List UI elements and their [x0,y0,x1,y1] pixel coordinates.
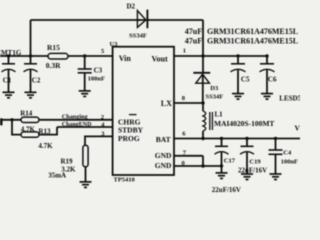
svg-text:0.3R: 0.3R [46,61,61,70]
capacitor C17 [215,139,229,173]
svg-text:1: 1 [183,47,186,54]
svg-text:U3: U3 [110,41,119,48]
svg-text:Vout: Vout [152,55,168,64]
svg-text:GND: GND [155,151,172,160]
svg-text:C5: C5 [241,75,250,83]
wire R14 to U3 pin2 [39,119,113,121]
node junction C5 [236,54,239,57]
wire LX to node [174,102,203,104]
svg-text:R19: R19 [61,157,74,165]
wire Vin rail right to U3 pin5 [68,55,113,57]
wire GND join vertical [202,156,204,166]
svg-text:C19: C19 [249,158,261,165]
node junction C4 [274,137,277,140]
wire junction down to R13 [12,120,21,135]
svg-text:4.7K: 4.7K [38,142,53,150]
resistor R15 [48,53,68,59]
svg-text:100nF: 100nF [281,158,298,165]
resistor R19 [83,145,88,167]
svg-text:R15: R15 [47,43,60,52]
capacitor C1 [2,56,16,92]
diode D3 [193,73,210,103]
svg-text:L1: L1 [215,111,224,119]
svg-text:Vin: Vin [119,54,132,63]
svg-text:SS34F: SS34F [206,94,224,101]
svg-text:SS34F: SS34F [129,32,147,39]
svg-text:Changing: Changing [62,114,89,121]
node junction GND join [201,164,204,167]
svg-text:CMT1G: CMT1G [0,49,22,57]
capacitor C19 [240,139,254,175]
node junction C1 [7,54,10,57]
wire R13 up-jog to pin4 rail [39,127,57,135]
wire BAT rail [174,138,300,140]
svg-text:GRM31CR61A476ME15L: GRM31CR61A476ME15L [207,37,298,46]
wire GND pin7 [174,155,203,157]
capacitor C4 [269,139,283,175]
svg-text:C6: C6 [268,75,277,83]
wire R19 to ground [85,167,87,182]
wire U3 pin3 to R19 [85,136,113,145]
node junction C19 [245,137,248,140]
node junction L1/BAT [201,137,204,140]
diode D2 [137,10,147,29]
node junction C17 bottom [220,164,223,167]
wire GND pin0 [174,165,203,167]
svg-text:35mA: 35mA [48,171,66,179]
svg-text:C4: C4 [283,150,292,157]
resistor R13 [21,132,39,137]
wire vertical drop at left x=30.5 [30,20,32,56]
svg-text:D2: D2 [127,3,136,11]
resistor R14 [21,117,39,122]
node junction C3 [83,54,86,57]
svg-text:100nF: 100nF [88,76,105,83]
capacitor C6 [260,56,275,94]
wire top rail from input to D2 [31,19,141,21]
ground (C3) [79,91,91,97]
wire Vin rail left [0,55,48,57]
capacitor C5 [231,56,246,94]
svg-text:GRM31CR61A476ME15L: GRM31CR61A476ME15L [207,27,298,36]
wire Vout rail [174,55,267,57]
net stub left edge (cut) [0,118,3,125]
ground (C6) [261,94,273,100]
svg-text:V: V [295,124,301,133]
svg-text:22uF/16V: 22uF/16V [212,186,241,194]
wire vertical right x=203 top [202,20,204,73]
svg-text:BAT: BAT [156,135,171,144]
ground (C1) [3,92,15,98]
node junction C17 [220,137,223,140]
node junction Vout/D3 [201,54,204,57]
svg-text:LESD5: LESD5 [279,94,300,102]
svg-text:PROG: PROG [118,134,140,143]
wire left input to R14 [3,119,22,121]
svg-text:47uF: 47uF [185,27,202,36]
svg-text:TP5410: TP5410 [114,176,135,183]
svg-text:GND: GND [155,161,172,170]
wire GND to C17 [203,165,222,167]
ground (R19) [80,182,92,188]
node junction C6 [265,54,268,57]
op-amp U3 TP5410 box [113,47,174,175]
svg-text:ChangEND: ChangEND [62,122,92,128]
capacitor C2 [24,56,38,92]
svg-text:C1: C1 [3,76,12,84]
ground (C19) [241,174,253,180]
svg-text:47uF: 47uF [185,37,202,46]
node junction LX/D3/L1 [201,101,204,104]
pin label CHRG with overline [118,115,141,127]
node junction R14/R13 [10,118,13,121]
wire D2 cathode to top-right corner [137,19,203,21]
svg-text:MAI4020S-100MT: MAI4020S-100MT [214,119,274,128]
ground (C5) [232,94,244,100]
svg-text:LX: LX [161,99,172,108]
ground (C4) [270,174,282,180]
wire to U3 pin4 [57,126,113,128]
svg-text:2: 2 [101,114,104,121]
inductor L1 [203,103,212,139]
node junction C2 [29,54,32,57]
svg-text:D3: D3 [210,85,219,92]
ground (C2) [25,92,37,98]
capacitor C3 [78,56,92,91]
svg-text:C3: C3 [94,66,103,74]
svg-text:R14: R14 [20,109,33,117]
ground (C17) [216,173,228,179]
svg-text:C2: C2 [32,76,41,84]
svg-text:C17: C17 [224,157,236,164]
